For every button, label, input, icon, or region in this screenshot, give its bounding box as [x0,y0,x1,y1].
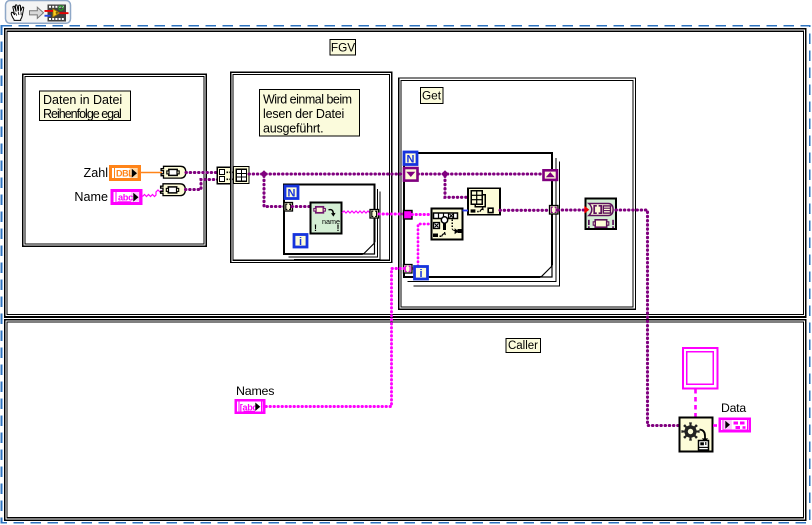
attribute node [432,209,463,240]
wire gear to Data indicator [713,424,719,427]
build array node [217,167,249,184]
Names string array control [235,399,266,414]
Get label [421,88,444,104]
tool arrow icon [30,7,44,18]
toolbar palette [6,1,71,24]
wire variant1 to build array [186,171,218,174]
for loop 2 i terminal [415,267,428,280]
wire blue attribute to variant-to-data [463,210,469,212]
decoration box 1 [23,74,207,246]
wire variant2 to build array [186,180,218,190]
wire variant-to-data to right tunnel [500,209,550,212]
wire branch down to for loop 1 [264,176,285,207]
svg-text:!: ! [314,223,317,233]
comment Wird einmal beim [260,90,360,137]
comment Daten in Datei [40,91,131,121]
wire tunnel to subvi name [292,205,311,208]
for loop 2 right tunnel [550,206,559,215]
FGV outer frame [5,29,806,317]
wire string zigzag abc to variant [143,190,163,197]
svg-text:Wird einmal beim: Wird einmal beim [263,93,352,107]
wire typedef to gear vi [694,389,697,417]
svg-text:Zahl: Zahl [84,166,109,180]
wire Names to box3 [266,269,404,407]
wire subvi to right tunnel zigzag [342,211,374,213]
label Zahl [84,166,109,180]
to-variant node 1 [161,166,186,178]
svg-text:[abc: [abc [240,402,258,412]
for loop 2 frame [404,153,552,277]
for loop 1 dog ear [363,242,376,255]
box3 string tunnel solid [404,211,413,220]
Caller outer frame [5,320,806,521]
red coercion arrow [584,206,589,214]
FGV label [330,40,356,56]
decoration box 2 [231,72,392,262]
tool hand icon [11,5,23,21]
svg-text:Get: Get [422,89,442,103]
junction diamond 2 [441,170,449,178]
wire green subvi output down to caller [616,210,680,426]
wire shift reg left to right [418,172,543,175]
wire build array output to box3 [249,172,404,175]
typedef constant square [683,348,718,389]
svg-text:N: N [288,188,296,200]
for loop 1 left tunnel [284,203,293,212]
svg-text:Name: Name [74,190,108,204]
label Names [236,384,274,398]
svg-text:Names: Names [236,384,274,398]
gear subvi [680,418,713,452]
tool VI run icon [45,5,69,22]
label Name [74,190,108,204]
svg-text:lesen der Datei: lesen der Datei [263,107,344,121]
wire string array to box3 tunnel [379,213,404,216]
svg-text:i: i [419,268,422,280]
for loop 2 N terminal [404,152,417,165]
svg-text:ausgeführt.: ausgeführt. [263,122,323,136]
svg-text:i: i [299,236,302,248]
subvi variant-name [311,203,342,234]
wire tunnel to attribute node [412,213,432,216]
shift register left [404,168,418,181]
for loop 2 shadow layers [408,158,560,286]
junction diamond 1 [260,170,268,178]
for loop 2 dog ear [540,265,553,278]
for loop 1 right tunnel [370,210,379,219]
Caller label [506,339,541,353]
wire orange DBL to variant [141,172,162,174]
svg-text:abc: abc [118,192,133,202]
wire right tunnel to green subvi [558,208,585,211]
for loop 1 frame [284,185,375,255]
svg-text:N: N [407,153,415,165]
for loop 1 shadow layers [289,189,381,260]
abc string control [111,189,143,205]
svg-text:Reihenfolge egal: Reihenfolge egal [43,107,121,121]
svg-text:Caller: Caller [508,340,538,352]
Data cluster indicator [719,417,752,432]
svg-text:FGV: FGV [331,40,355,54]
green subvi array-out [586,199,617,230]
for loop 1 i terminal [294,235,307,248]
wire branch down to variant-to-data [445,176,468,197]
svg-text:Daten in Datei: Daten in Datei [43,93,122,107]
box3 indexing tunnel [404,265,413,274]
decoration box 3 (Get) [399,78,636,309]
shift register right [544,170,558,180]
to-variant node 2 [161,184,186,196]
svg-text:Data: Data [721,401,746,415]
svg-text:DBL: DBL [116,168,134,178]
for loop 1 N terminal [285,186,298,200]
DBL control [109,165,141,181]
wire element to attribute input2 [413,224,432,269]
variant to data node [468,188,500,215]
svg-text:!: ! [337,223,340,233]
label Data [721,401,746,415]
